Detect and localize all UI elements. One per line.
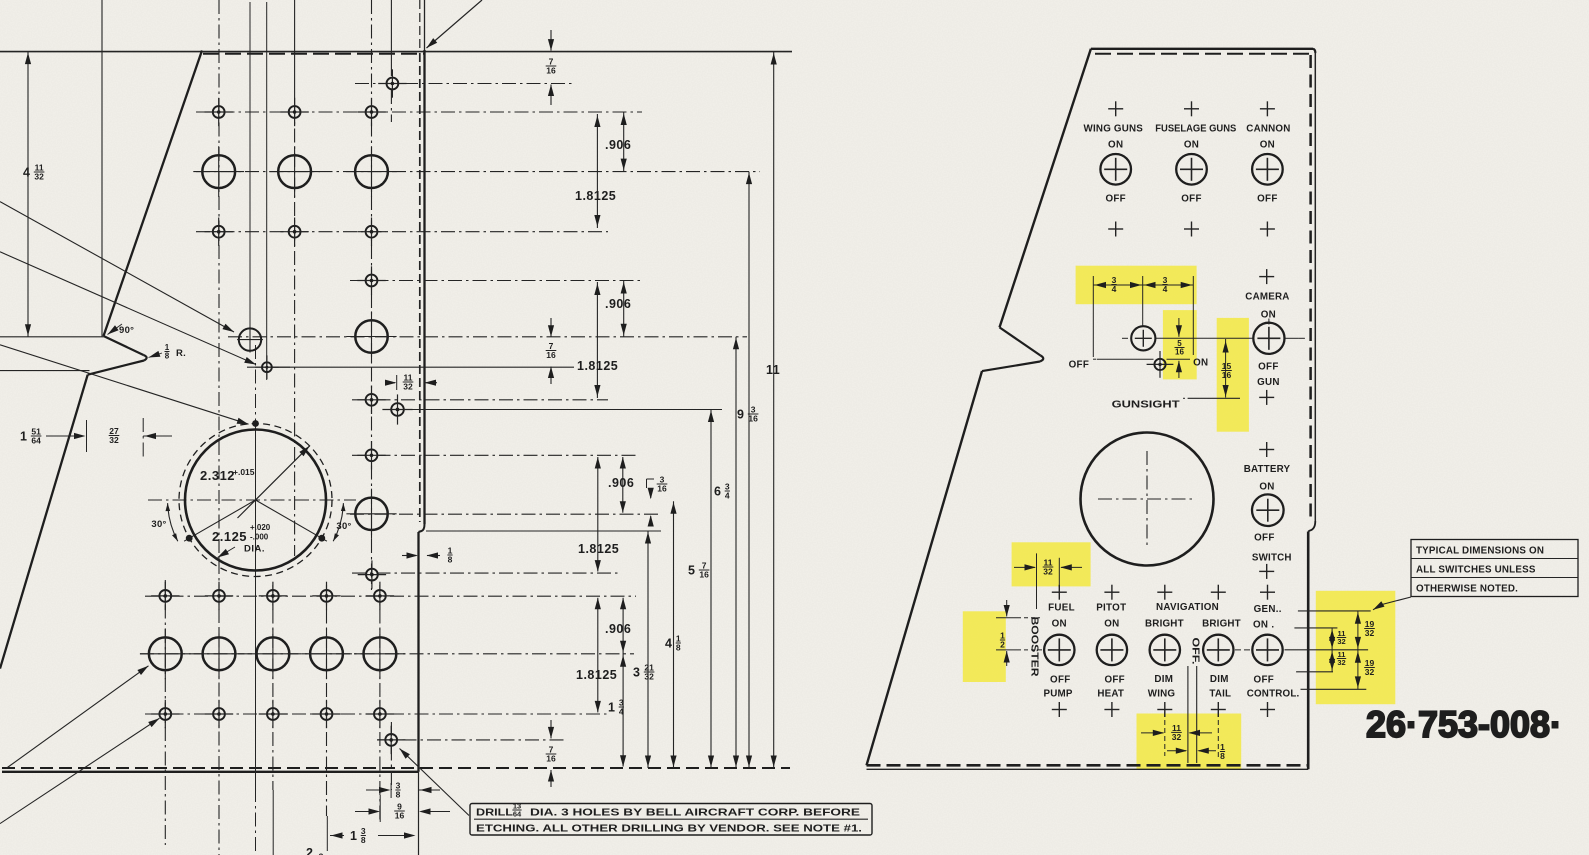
svg-text:8: 8: [676, 643, 681, 653]
svg-text:32: 32: [1365, 667, 1375, 677]
svg-text:3: 3: [319, 852, 324, 855]
svg-text:WING GUNS: WING GUNS: [1084, 124, 1144, 135]
svg-text:PUMP: PUMP: [1044, 689, 1073, 700]
svg-text:OFF: OFF: [1104, 674, 1125, 685]
svg-text:32: 32: [34, 172, 44, 182]
svg-text:4: 4: [725, 491, 730, 501]
svg-text:1.8125: 1.8125: [578, 542, 619, 556]
svg-text:11: 11: [766, 363, 780, 377]
svg-text:OFF.: OFF.: [1189, 638, 1200, 665]
svg-text:9: 9: [737, 408, 744, 422]
svg-text:32: 32: [1172, 732, 1182, 742]
svg-text:8: 8: [165, 352, 170, 361]
svg-text:16: 16: [699, 570, 709, 580]
svg-text:BATTERY: BATTERY: [1244, 464, 1291, 475]
svg-text:+.015: +.015: [233, 467, 255, 477]
svg-text:30°: 30°: [336, 521, 351, 532]
svg-text:8: 8: [1220, 751, 1225, 761]
svg-text:.906: .906: [605, 622, 631, 636]
svg-text:16: 16: [1222, 370, 1232, 380]
svg-text:16: 16: [1175, 348, 1184, 357]
svg-text:64: 64: [513, 810, 522, 819]
svg-text:WING: WING: [1148, 689, 1176, 700]
svg-text:ON: ON: [1184, 139, 1199, 150]
svg-text:64: 64: [31, 436, 41, 446]
svg-text:CANNON: CANNON: [1246, 124, 1290, 135]
svg-text:1: 1: [608, 701, 615, 715]
svg-text:2.312: 2.312: [200, 468, 235, 483]
svg-text:TYPICAL DIMENSIONS ON: TYPICAL DIMENSIONS ON: [1416, 546, 1544, 557]
svg-text:1.8125: 1.8125: [575, 189, 616, 203]
svg-text:16: 16: [657, 484, 667, 494]
svg-text:90°: 90°: [119, 325, 134, 336]
svg-text:8: 8: [396, 790, 401, 800]
svg-text:CAMERA: CAMERA: [1245, 292, 1289, 303]
svg-text:32: 32: [1365, 628, 1375, 638]
svg-text:16: 16: [546, 350, 556, 360]
svg-text:ON .: ON .: [1253, 620, 1274, 631]
svg-text:ON: ON: [1259, 481, 1274, 492]
svg-text:OTHERWISE NOTED.: OTHERWISE NOTED.: [1416, 584, 1518, 595]
svg-text:OFF: OFF: [1069, 360, 1090, 371]
svg-text:DIM: DIM: [1154, 674, 1173, 685]
svg-text:32: 32: [1337, 658, 1345, 667]
svg-text:-.000: -.000: [250, 533, 269, 542]
svg-text:32: 32: [1043, 567, 1053, 577]
svg-text:2: 2: [1000, 640, 1005, 650]
svg-text:16: 16: [546, 754, 556, 764]
svg-text:BRIGHT: BRIGHT: [1202, 619, 1241, 630]
svg-text:FUEL: FUEL: [1048, 603, 1075, 614]
svg-text:PITOT: PITOT: [1096, 603, 1126, 614]
svg-text:16: 16: [395, 811, 405, 821]
svg-text:.906: .906: [608, 476, 634, 490]
svg-text:ON: ON: [1104, 619, 1119, 630]
svg-text:5: 5: [688, 564, 695, 578]
svg-text:OFF: OFF: [1257, 193, 1278, 204]
svg-text:32: 32: [644, 672, 654, 682]
svg-text:30°: 30°: [151, 519, 166, 530]
svg-text:OFF: OFF: [1050, 674, 1071, 685]
svg-text:16: 16: [546, 66, 556, 76]
svg-text:BOOSTER: BOOSTER: [1029, 617, 1040, 677]
svg-text:OFF: OFF: [1254, 533, 1275, 544]
svg-text:OFF: OFF: [1105, 193, 1126, 204]
svg-text:8: 8: [448, 555, 453, 565]
svg-text:HEAT: HEAT: [1097, 689, 1124, 700]
svg-text:1: 1: [20, 430, 27, 444]
svg-text:CONTROL.: CONTROL.: [1247, 688, 1300, 699]
svg-text:ON: ON: [1108, 139, 1123, 150]
svg-text:.906: .906: [605, 297, 631, 311]
svg-text:32: 32: [403, 382, 413, 392]
svg-text:GEN..: GEN..: [1254, 604, 1282, 615]
svg-text:DIA.: DIA.: [244, 544, 265, 555]
svg-text:ON: ON: [1052, 619, 1067, 630]
svg-text:1.8125: 1.8125: [576, 668, 617, 682]
svg-text:3: 3: [633, 666, 640, 680]
svg-text:OFF: OFF: [1181, 193, 1202, 204]
svg-text:NAVIGATION: NAVIGATION: [1156, 602, 1219, 613]
svg-text:DIM: DIM: [1210, 674, 1229, 685]
svg-text:1.8125: 1.8125: [577, 359, 618, 373]
svg-text:.906: .906: [605, 138, 631, 152]
svg-text:ON: ON: [1193, 358, 1208, 369]
svg-text:OFF: OFF: [1254, 674, 1275, 685]
svg-text:1: 1: [350, 829, 357, 843]
svg-text:GUN: GUN: [1257, 377, 1280, 388]
svg-text:ETCHING. ALL OTHER DRILLING: ETCHING. ALL OTHER DRILLING BY VENDOR. S…: [476, 823, 862, 835]
svg-text:26·753-008·: 26·753-008·: [1366, 704, 1562, 745]
svg-text:4: 4: [619, 707, 624, 717]
svg-text:+.020: +.020: [250, 523, 271, 532]
svg-text:4: 4: [1112, 284, 1117, 294]
svg-text:4: 4: [23, 166, 30, 180]
svg-text:4: 4: [665, 637, 672, 651]
svg-text:16: 16: [748, 414, 758, 424]
svg-text:DIA. 3 HOLES BY BELL AIRCRAFT: DIA. 3 HOLES BY BELL AIRCRAFT CORP. BEFO…: [530, 807, 860, 819]
svg-text:8: 8: [361, 835, 366, 845]
svg-text:6: 6: [714, 485, 721, 499]
svg-text:ALL SWITCHES UNLESS: ALL SWITCHES UNLESS: [1416, 565, 1536, 576]
svg-text:4: 4: [1163, 284, 1168, 294]
svg-text:2: 2: [306, 846, 313, 855]
svg-text:BRIGHT: BRIGHT: [1145, 619, 1184, 630]
svg-text:OFF: OFF: [1258, 361, 1279, 372]
svg-text:TAIL: TAIL: [1209, 689, 1231, 700]
svg-text:R.: R.: [176, 348, 186, 359]
svg-text:GUNSIGHT: GUNSIGHT: [1112, 399, 1180, 410]
svg-text:SWITCH: SWITCH: [1252, 552, 1292, 563]
svg-text:2.125: 2.125: [212, 529, 247, 544]
svg-text:FUSELAGE GUNS: FUSELAGE GUNS: [1155, 124, 1236, 135]
svg-text:32: 32: [1337, 637, 1345, 646]
svg-text:DRILL: DRILL: [476, 807, 514, 819]
svg-text:ON: ON: [1260, 139, 1275, 150]
svg-text:32: 32: [109, 435, 119, 445]
